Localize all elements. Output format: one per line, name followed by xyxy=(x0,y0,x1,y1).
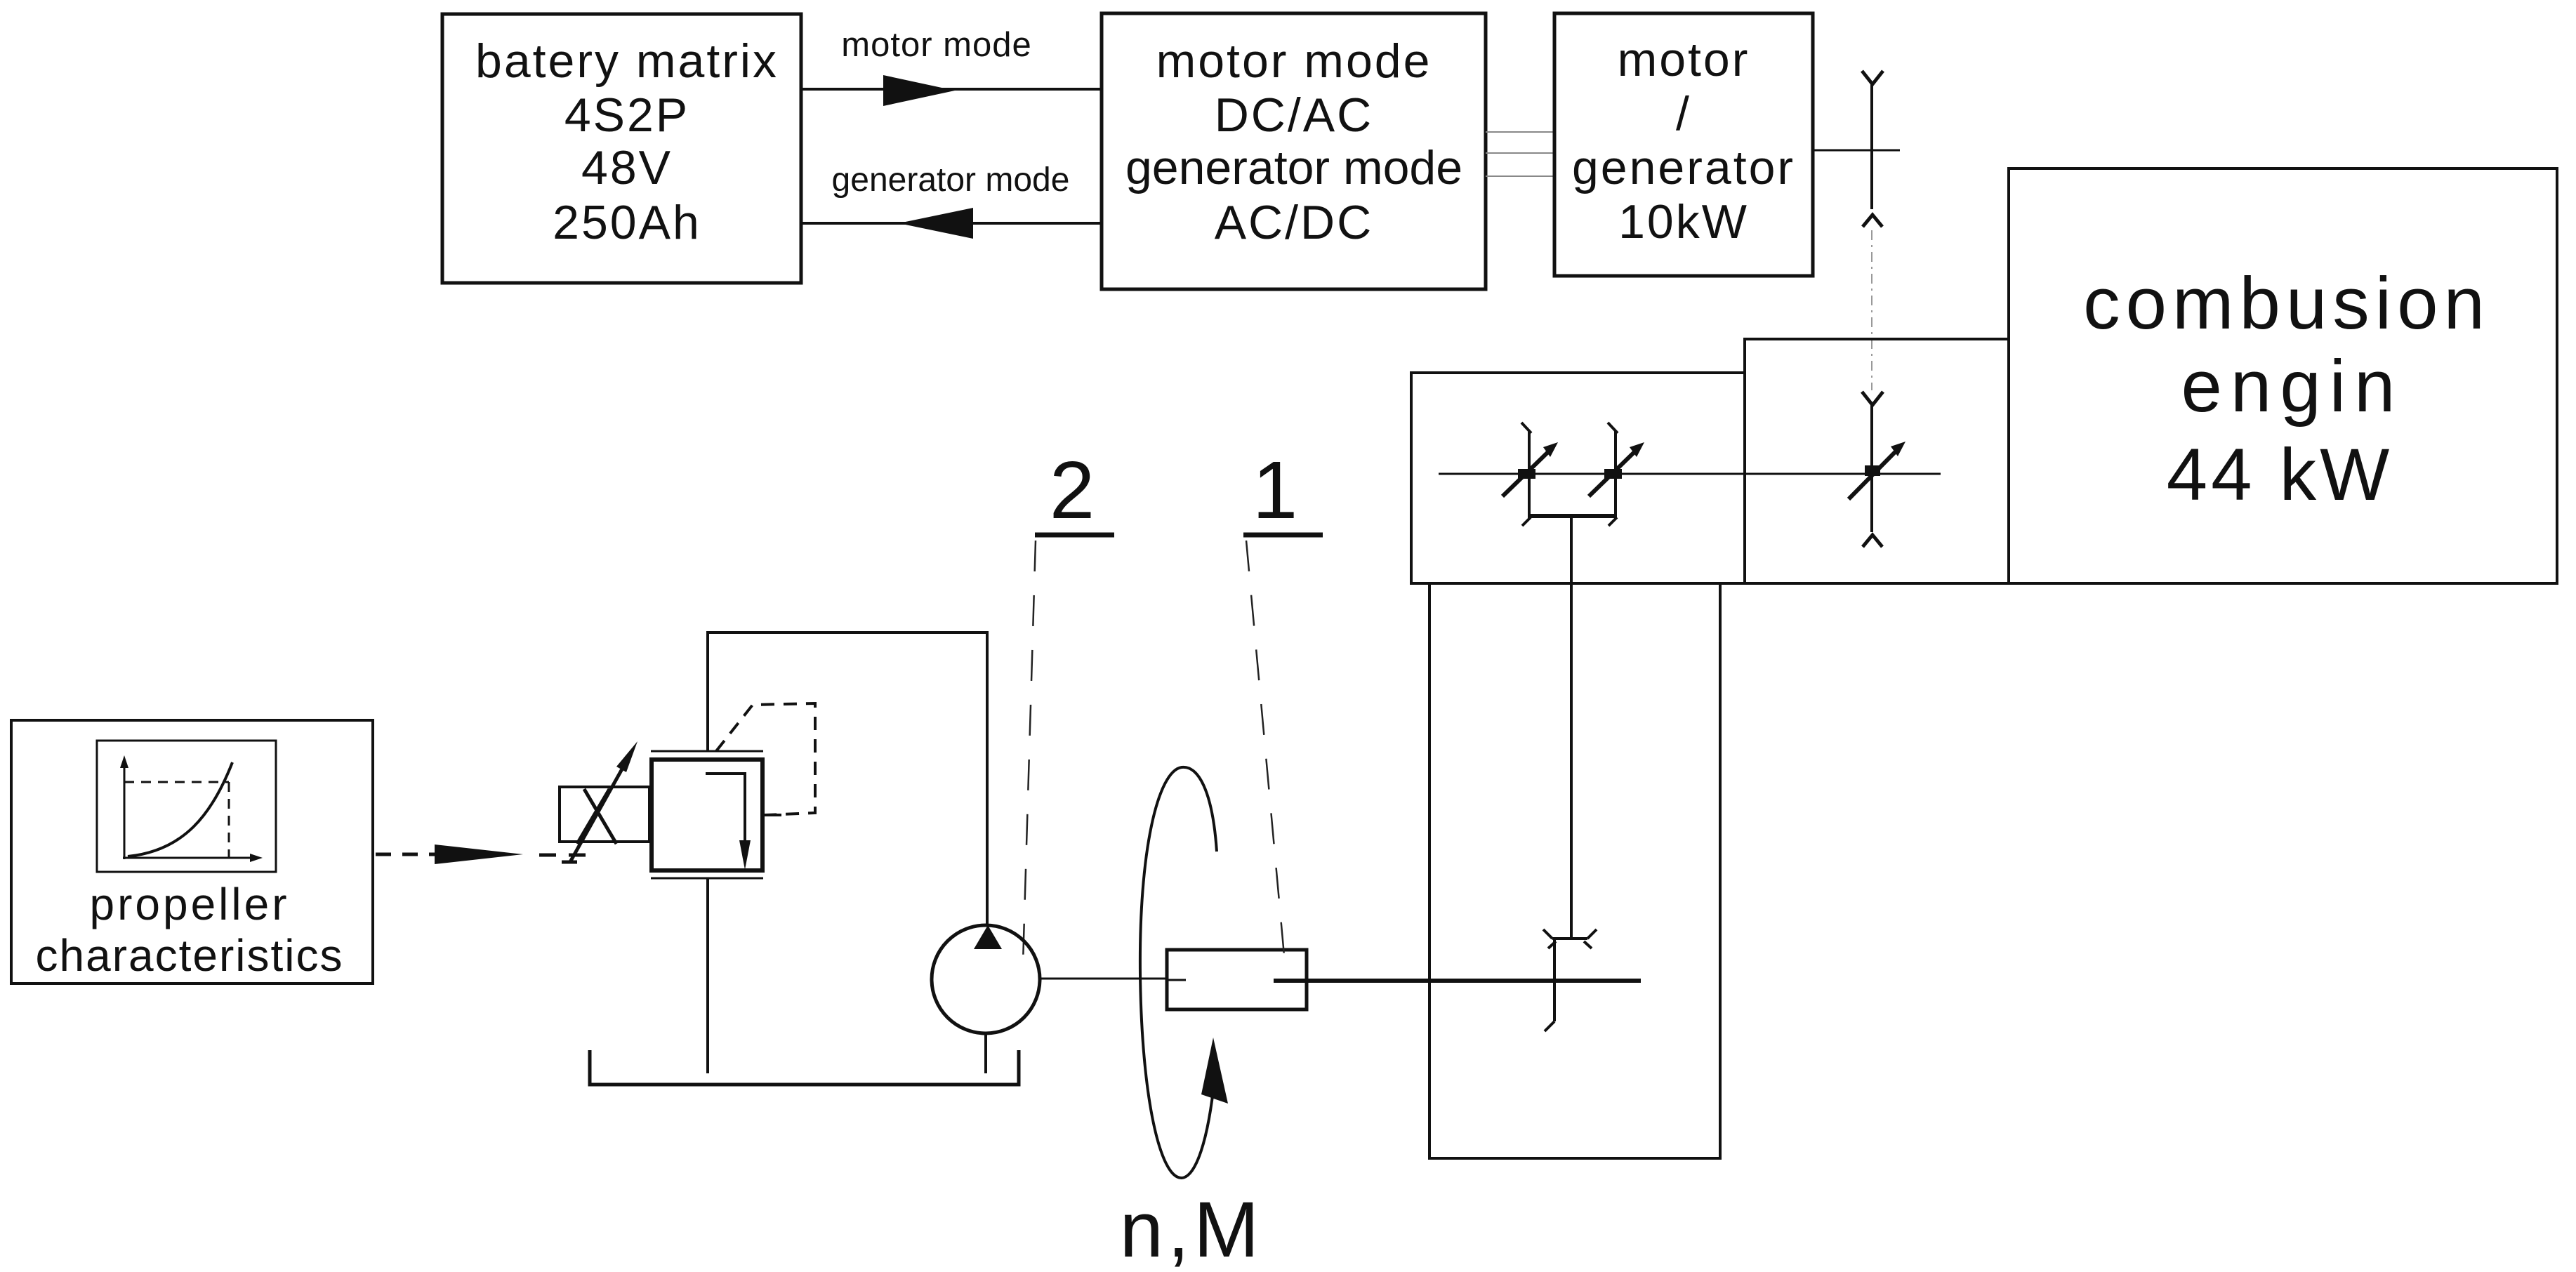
gearbox housing B wall xyxy=(1745,339,2009,583)
generator mode arrowhead xyxy=(899,208,973,239)
svg-text:generator mode: generator mode xyxy=(1125,141,1462,194)
adjust arrowhead xyxy=(616,741,638,772)
gearbox baseline xyxy=(1411,582,2557,585)
rotation arc n,M xyxy=(1140,767,1217,1178)
motor mode wire xyxy=(801,88,1102,91)
svg-text:motor: motor xyxy=(1618,33,1750,86)
motor/generator shaft xyxy=(1813,150,1900,152)
clutch fork xyxy=(1543,929,1597,948)
svg-text:combusion: combusion xyxy=(2083,263,2490,345)
svg-text:250Ah: 250Ah xyxy=(553,196,701,249)
adjust arrow foot xyxy=(562,861,577,864)
graph curve xyxy=(128,762,232,856)
gearbox housing A left wall xyxy=(1411,373,1745,585)
gear G1 xyxy=(1502,423,1558,526)
coupling right stub xyxy=(1274,979,1307,983)
propeller characteristics box xyxy=(11,720,373,983)
motor/generator box xyxy=(1554,13,1813,276)
command dashed line xyxy=(376,853,435,856)
svg-text:DC/AC: DC/AC xyxy=(1215,88,1374,142)
svg-text:AC/DC: AC/DC xyxy=(1215,196,1374,249)
valve top plate xyxy=(651,750,763,753)
gear G2 xyxy=(1589,423,1644,526)
command arrowhead xyxy=(435,844,523,864)
pump control line xyxy=(986,632,989,927)
pilot port stub xyxy=(762,814,781,816)
svg-text:48V: 48V xyxy=(581,141,673,194)
motor mode arrowhead xyxy=(883,75,955,106)
converter box xyxy=(1102,13,1486,289)
supply top line xyxy=(706,631,989,634)
propeller shaft thick xyxy=(1307,979,1641,983)
stern housing right wall xyxy=(1719,583,1722,1158)
svg-text:/: / xyxy=(1676,87,1691,140)
clutch lever xyxy=(1545,939,1554,1031)
valve internal path xyxy=(706,774,745,840)
svg-text:1: 1 xyxy=(1253,444,1298,536)
output shaft vertical xyxy=(1570,516,1573,939)
stern housing bottom xyxy=(1428,1157,1722,1160)
valve bottom plate xyxy=(651,877,763,880)
graph y-axis xyxy=(124,765,126,859)
gear G3 slash arrowhead xyxy=(1891,442,1905,456)
gear shaft xyxy=(1439,473,1941,475)
coupling K1 bottom chevron xyxy=(1863,215,1882,227)
label 2 underline xyxy=(1035,533,1114,538)
coupling K1 shaft segment xyxy=(1870,84,1873,209)
valve drain line xyxy=(706,878,709,1073)
label 2 leader xyxy=(1023,541,1036,963)
graph x arrowhead xyxy=(250,854,263,862)
stern housing left wall xyxy=(1428,583,1431,1158)
svg-text:propeller: propeller xyxy=(89,879,289,929)
valve supply line xyxy=(706,632,709,750)
svg-text:generator: generator xyxy=(1572,141,1795,194)
pump suction line xyxy=(984,1033,987,1073)
rotation arrowhead xyxy=(1201,1038,1228,1104)
three-phase wire 2 xyxy=(1486,152,1554,154)
pump triangle xyxy=(974,925,1002,949)
three-phase wire 1 xyxy=(1486,131,1554,133)
svg-text:engin: engin xyxy=(2181,345,2404,428)
label 1 underline xyxy=(1243,533,1323,538)
label 1 leader xyxy=(1246,541,1285,963)
generator mode wire xyxy=(801,222,1102,225)
graph dashed horizontal xyxy=(124,781,229,783)
battery box xyxy=(442,14,801,283)
coupling box (item 1) xyxy=(1167,950,1307,1009)
graph y arrowhead xyxy=(120,755,128,768)
adjust arrow shaft xyxy=(570,760,627,862)
solenoid X stroke 1 xyxy=(584,789,616,844)
svg-text:n,M: n,M xyxy=(1120,1186,1264,1272)
shaft centerline (dash-dot) xyxy=(1871,230,1872,390)
tank bracket xyxy=(590,1050,1019,1085)
valve body xyxy=(652,760,762,870)
svg-text:motor mode: motor mode xyxy=(841,26,1031,64)
coupling K2 shaft segment xyxy=(1870,404,1873,532)
svg-text:10kW: 10kW xyxy=(1618,195,1749,249)
coupling K2 bottom chevron xyxy=(1863,535,1882,547)
gear G3 hub xyxy=(1865,465,1880,476)
valve internal arrowhead xyxy=(739,840,751,870)
svg-text:2: 2 xyxy=(1050,444,1095,536)
svg-text:44 kW: 44 kW xyxy=(2167,434,2393,516)
gear G3 slash xyxy=(1849,446,1901,499)
svg-text:motor mode: motor mode xyxy=(1156,34,1432,88)
pilot dashed loop xyxy=(716,703,815,815)
coupling K1 top fork xyxy=(1862,71,1883,84)
graph dashed vertical xyxy=(228,782,230,858)
svg-text:characteristics: characteristics xyxy=(36,930,344,981)
svg-text:batery matrix: batery matrix xyxy=(475,34,779,88)
three-phase wire 3 xyxy=(1486,175,1554,177)
coupling K2 top fork xyxy=(1862,392,1883,405)
solenoid X stroke 2 xyxy=(577,789,609,844)
svg-text:generator mode: generator mode xyxy=(832,161,1070,199)
command dashed line 2 xyxy=(539,854,590,857)
svg-text:4S2P: 4S2P xyxy=(564,88,689,142)
pump circle xyxy=(932,925,1040,1033)
combustion engine box xyxy=(2009,168,2557,583)
solenoid box xyxy=(560,787,649,842)
coupling left stub xyxy=(1167,979,1186,981)
graph x-axis xyxy=(123,857,253,859)
carrier bracket xyxy=(1529,514,1616,518)
propeller shaft thin xyxy=(1040,978,1167,980)
graph frame xyxy=(97,741,276,872)
